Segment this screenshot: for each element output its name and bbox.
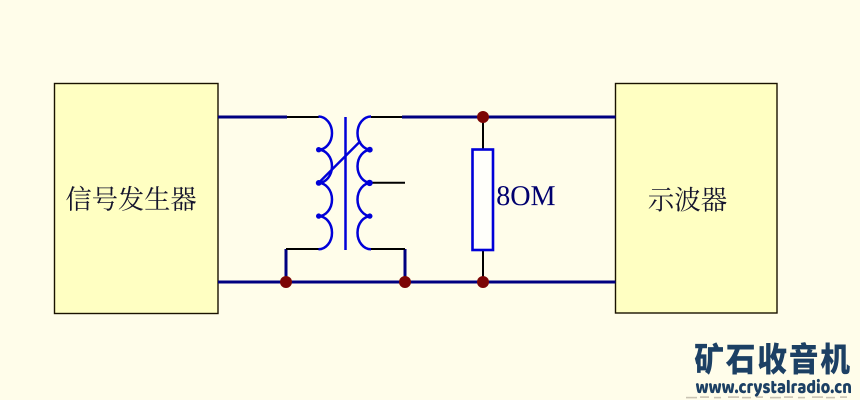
pin T1.3 (secondary top) [371,116,402,118]
label 信号发生器 (signal generator) [66,186,196,211]
transformer T1 primary winding [319,117,333,250]
pin R1 bottom [482,249,484,278]
sheet symbol: oscilloscope box [616,84,778,314]
wire top-right [402,116,616,119]
winding cusp blobs [316,147,373,219]
value label 8OM [497,186,554,205]
transformer T1 adjust diagonal [319,141,361,183]
watermark logo 矿石收音机 [695,342,850,375]
junction top (node A) [477,111,489,123]
wire right winding drop [404,249,407,282]
pin R1 top [482,121,484,150]
sheet symbol: signal generator box [55,84,219,314]
junction bottom-mid [399,276,411,288]
jpeg artifact band under watermark [686,396,847,399]
transformer T1 core [344,117,347,250]
pin T1.1 (primary top) [287,116,319,118]
junction bottom-left [280,276,292,288]
resistor R1 body [473,150,494,251]
transformer T1 secondary winding [357,117,371,250]
wire bottom [218,281,616,284]
wire left winding drop [285,249,288,282]
watermark url www.crystalradio.cn [696,379,851,397]
junction bottom-right [477,276,489,288]
label 示波器 (oscilloscope) [649,187,727,212]
pin T1.4 (secondary tap) [371,182,405,184]
pin T1.5 (secondary bottom) [371,248,405,250]
pin T1.2 (primary bottom) [286,248,319,250]
wire top-left [218,116,287,119]
